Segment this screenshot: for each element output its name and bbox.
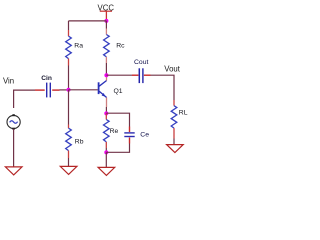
- wire Ce bottom branch: [106, 144, 129, 153]
- transistor Q1: [98, 81, 107, 98]
- svg-text:Q1: Q1: [114, 88, 123, 95]
- pin Ra pin2: [68, 59, 70, 66]
- pin Q1 collector: [106, 75, 108, 80]
- resistor RL: [171, 106, 177, 128]
- svg-text:Ra: Ra: [74, 43, 83, 50]
- source V1 AC (Vin): [7, 114, 20, 130]
- wire Ce top branch: [106, 113, 129, 126]
- wire Vin horizontal: [14, 90, 35, 108]
- wire top rail: [69, 20, 107, 22]
- pin Cin pin2: [52, 89, 59, 91]
- svg-text:Cout: Cout: [134, 59, 148, 66]
- svg-text:Ce: Ce: [140, 131, 149, 138]
- wire Ra bottom to base node: [68, 66, 70, 90]
- pin RL pin1: [173, 100, 175, 106]
- wire Cout to Vout corner: [151, 75, 175, 100]
- wire node to ground: [105, 152, 107, 167]
- svg-text:Cin: Cin: [41, 75, 52, 82]
- pin Ce pin2: [129, 138, 131, 144]
- pin Cout pin1: [132, 74, 138, 76]
- resistor Ra: [66, 36, 72, 58]
- svg-text:RL: RL: [179, 109, 188, 116]
- capacitor Cin: [47, 83, 51, 98]
- pin Rc pin1: [105, 29, 107, 35]
- capacitor Ce: [124, 133, 134, 137]
- pin Cout pin2: [144, 74, 151, 76]
- wire Cin to base node: [60, 89, 69, 91]
- svg-text:Vout: Vout: [164, 65, 180, 74]
- wire Re bottom to node: [105, 148, 107, 152]
- wire base node to Q1 base: [69, 89, 98, 91]
- junction emitter node: [104, 111, 108, 115]
- svg-text:Re: Re: [110, 128, 119, 135]
- pin Ra pin1: [68, 30, 70, 36]
- ground RL: [167, 145, 184, 153]
- pin Rb pin2: [68, 151, 70, 158]
- junction collector node: [104, 73, 108, 77]
- wire output row: [106, 74, 132, 76]
- pin Rc pin2: [105, 57, 107, 63]
- svg-text:Rb: Rb: [75, 138, 84, 145]
- pin Re pin2: [105, 142, 107, 148]
- wire Rc top: [105, 21, 107, 29]
- wire Rb top: [68, 90, 70, 125]
- wire RL to ground: [173, 139, 175, 145]
- ground Rb: [60, 166, 77, 174]
- pin Ce pin1: [129, 127, 131, 133]
- ground Vin: [5, 167, 22, 175]
- pin Q1 emitter: [106, 98, 108, 108]
- wire Vin source to ground: [13, 129, 15, 167]
- power symbol VCC stem: [105, 12, 107, 21]
- resistor Re: [104, 120, 110, 142]
- resistor Rc: [104, 35, 110, 57]
- pin RL pin2: [173, 128, 175, 138]
- svg-text:Vin: Vin: [3, 77, 14, 86]
- capacitor Cout: [139, 68, 143, 83]
- svg-text:Rc: Rc: [116, 43, 125, 50]
- pin Cin pin1: [35, 89, 45, 91]
- wire Ra top: [68, 21, 70, 30]
- pin Re pin1: [105, 113, 107, 119]
- wire emitter to node: [105, 107, 107, 113]
- pin Rb pin1: [68, 125, 70, 129]
- junction emitter bottom node: [104, 150, 108, 154]
- junction VCC node: [104, 19, 108, 23]
- power symbol VCC bar: [100, 11, 112, 12]
- ground Re: [98, 167, 115, 175]
- wire Rc bottom to collector node: [105, 63, 107, 75]
- resistor Rb: [66, 128, 72, 150]
- wire Rb to ground: [68, 158, 70, 166]
- junction base node: [67, 88, 71, 92]
